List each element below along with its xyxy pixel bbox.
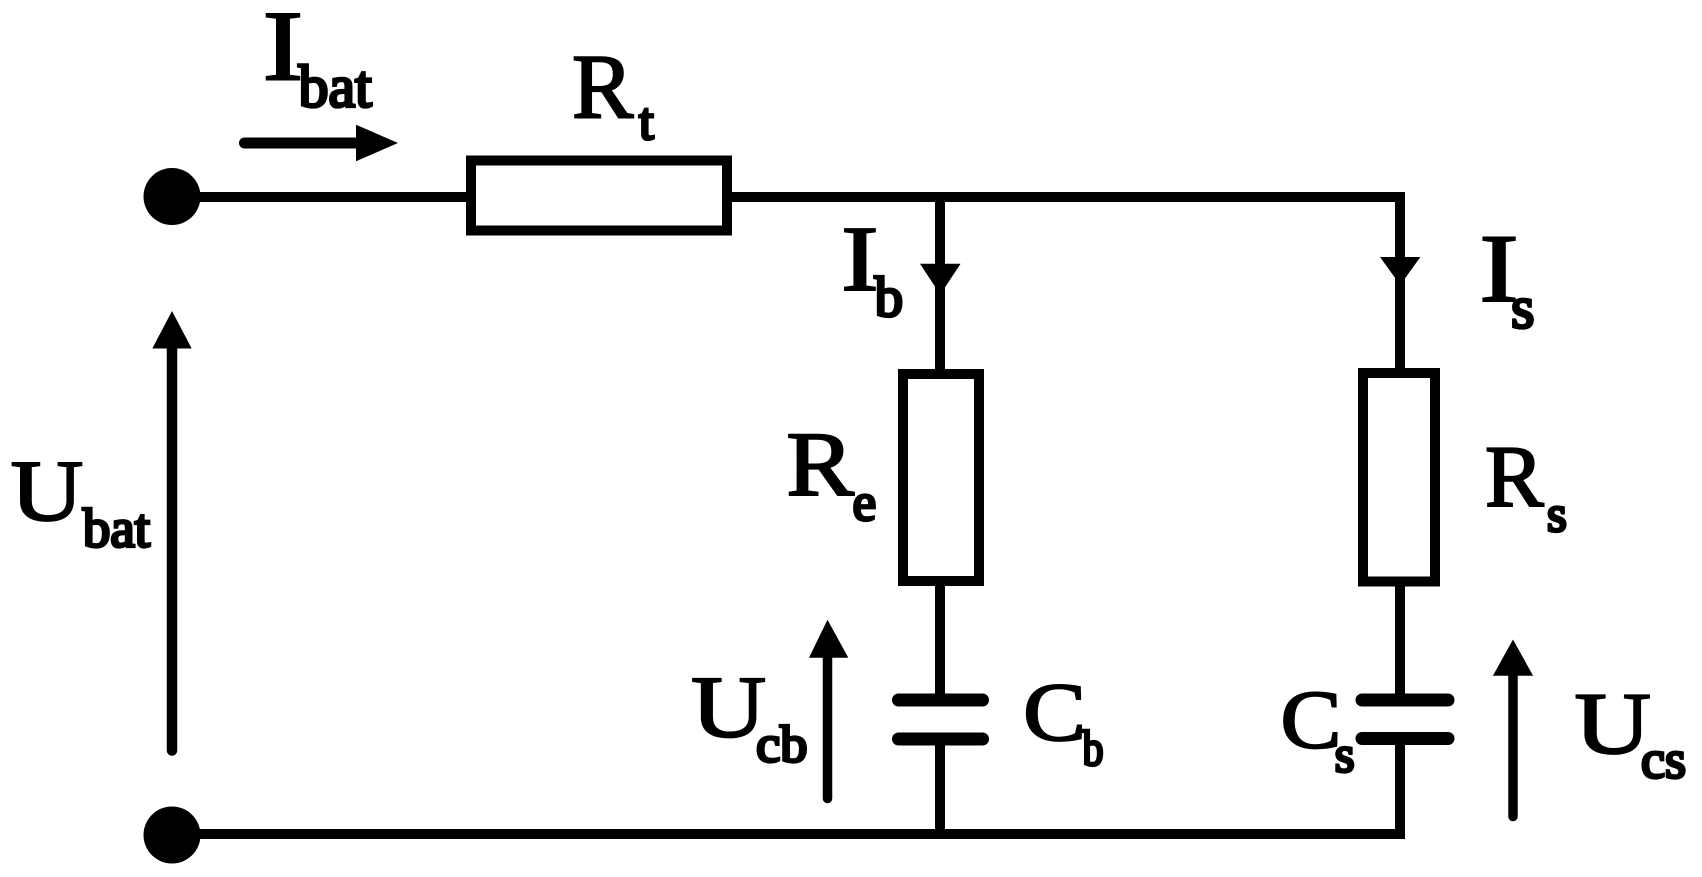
- arrow Ucb: [823, 655, 833, 799]
- label C_s: [1281, 674, 1355, 784]
- wire: Re to Cb top plate: [935, 585, 945, 700]
- capacitor Cs top plate: [1362, 694, 1448, 707]
- svg-text:b: b: [875, 266, 904, 329]
- svg-text:R: R: [786, 413, 854, 515]
- svg-text:cs: cs: [1641, 730, 1686, 790]
- resistor Re: [903, 374, 979, 581]
- wire: Cs bottom plate to bottom rail: [1395, 738, 1405, 834]
- capacitor Cs bottom plate: [1362, 732, 1448, 745]
- label R_s: [1485, 429, 1567, 543]
- wire right vertical: corner to Rs: [1395, 192, 1405, 374]
- svg-text:R: R: [572, 36, 634, 138]
- svg-text:e: e: [853, 474, 877, 532]
- label I_s: [1479, 215, 1534, 341]
- label R_e: [786, 413, 876, 532]
- svg-text:bat: bat: [299, 53, 373, 119]
- arrowhead current Ib: [920, 264, 961, 295]
- svg-text:s: s: [1511, 275, 1534, 341]
- svg-text:U: U: [1575, 676, 1652, 773]
- svg-text:I: I: [263, 0, 304, 102]
- wire bottom rail: [172, 829, 1405, 839]
- label C_b: [1023, 666, 1103, 776]
- svg-text:s: s: [1335, 727, 1355, 783]
- wire: Cb bottom plate to bottom rail: [935, 739, 945, 834]
- resistor Rs: [1363, 373, 1435, 582]
- resistor Rt: [471, 161, 727, 231]
- svg-text:bat: bat: [83, 498, 150, 559]
- label I_b: [841, 208, 903, 329]
- wire top-mid: Rt to right corner: [730, 192, 1405, 202]
- arrow Ucs: [1508, 674, 1518, 817]
- svg-text:C: C: [1281, 674, 1342, 766]
- svg-text:U: U: [11, 442, 84, 539]
- svg-text:R: R: [1485, 429, 1544, 526]
- label U_cs: [1575, 676, 1686, 790]
- svg-text:b: b: [1083, 720, 1104, 776]
- node: bottom-left terminal: [144, 807, 201, 864]
- wire top-left: terminal to Rt: [172, 192, 468, 202]
- svg-text:t: t: [639, 93, 654, 151]
- label R_t: [572, 36, 654, 151]
- label I_bat: [263, 0, 373, 119]
- svg-text:cb: cb: [756, 716, 807, 773]
- arrowhead current Is: [1380, 257, 1420, 285]
- wire left branch: junction to Re: [935, 197, 945, 374]
- svg-text:I: I: [841, 208, 879, 311]
- capacitor Cb bottom plate: [899, 733, 983, 746]
- svg-text:C: C: [1023, 666, 1086, 758]
- label U_bat: [11, 442, 150, 559]
- capacitor Cb top plate: [899, 694, 983, 707]
- label U_cb: [691, 660, 807, 774]
- arrow Ubat: [167, 348, 178, 751]
- arrow Ibat: [245, 138, 359, 149]
- svg-text:s: s: [1547, 487, 1567, 543]
- svg-text:U: U: [691, 660, 766, 757]
- wire: Rs to Cs top plate: [1395, 585, 1405, 700]
- node: top-left terminal: [144, 168, 201, 225]
